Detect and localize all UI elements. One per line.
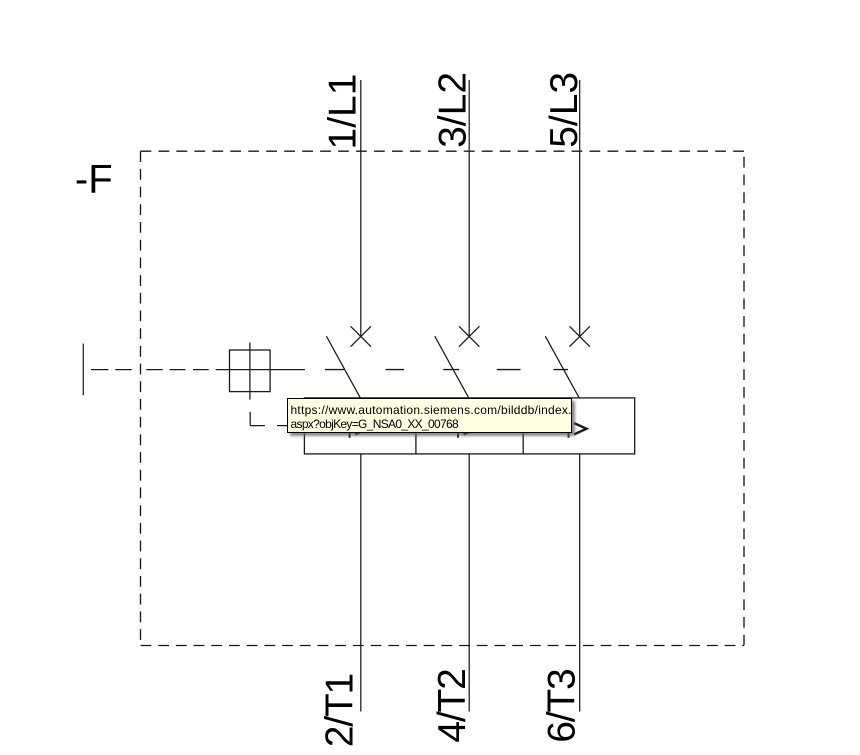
wire: output 2/T1 <box>360 454 362 712</box>
moving contact blade pole 3 <box>545 336 579 398</box>
svg-text:1/L1: 1/L1 <box>321 74 364 150</box>
svg-text:4/T2: 4/T2 <box>431 669 474 742</box>
breaker fixed contact X pole 1 <box>351 326 371 346</box>
breaker fixed contact X pole 2 <box>459 326 479 346</box>
breaker fixed contact X pole 3 <box>570 326 590 346</box>
moving contact blade pole 2 <box>435 336 469 398</box>
wire: output 4/T2 <box>468 454 470 712</box>
moving contact blade pole 1 <box>326 336 360 398</box>
operating mechanism vertical axis <box>249 342 251 399</box>
svg-text:-F: -F <box>75 158 113 202</box>
tooltip with image URL <box>287 398 572 433</box>
left actuator terminal stroke <box>82 344 84 396</box>
svg-text:2/T1: 2/T1 <box>319 674 362 747</box>
mechanical linkage dashes (poles) <box>325 369 568 371</box>
actuator solid link through mechanism <box>216 369 305 371</box>
wire: input 3/L2 <box>468 80 470 337</box>
wire: input 5/L3 <box>579 80 581 337</box>
trip unit divider 2 <box>522 398 524 454</box>
enclosure outline (dashed) <box>141 150 745 152</box>
dashed leader from mechanism to trip box <box>250 412 287 426</box>
trip unit box <box>304 398 634 454</box>
actuator dashed link (left run) <box>91 369 209 371</box>
overcurrent symbol I> pole 2 <box>457 420 459 438</box>
operating mechanism square <box>230 350 271 392</box>
svg-text:6/T3: 6/T3 <box>540 669 583 742</box>
overcurrent symbol I> pole 1 <box>349 420 351 438</box>
wire: output 6/T3 <box>579 454 581 712</box>
trip unit divider 1 <box>415 398 417 454</box>
overcurrent symbol I> pole 3 <box>568 420 570 438</box>
svg-text:3/L2: 3/L2 <box>431 72 474 148</box>
wire: input 1/L1 <box>360 80 362 337</box>
